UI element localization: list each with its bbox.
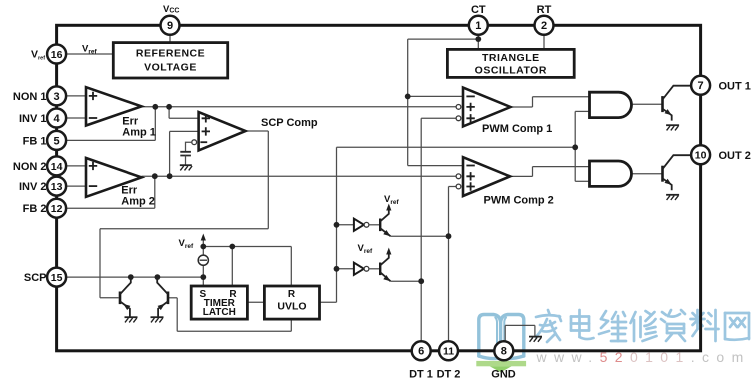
svg-text:REFERENCE: REFERENCE (136, 48, 205, 60)
svg-text:PWM Comp 2: PWM Comp 2 (484, 194, 554, 206)
svg-text:FB 2: FB 2 (23, 203, 47, 215)
svg-text:SCP: SCP (24, 272, 47, 284)
svg-text:12: 12 (51, 203, 63, 215)
svg-text:14: 14 (51, 161, 63, 173)
svg-text:Amp 1: Amp 1 (122, 127, 156, 139)
svg-text:5: 5 (54, 135, 60, 147)
svg-text:2: 2 (541, 20, 547, 32)
svg-text:INV 1: INV 1 (19, 113, 47, 125)
svg-text:Err: Err (121, 184, 138, 196)
svg-text:OUT 2: OUT 2 (719, 150, 751, 162)
svg-text:8: 8 (501, 346, 507, 358)
svg-text:OUT 1: OUT 1 (719, 80, 751, 92)
svg-text:LATCH: LATCH (203, 307, 236, 318)
svg-text:Amp 2: Amp 2 (121, 196, 155, 208)
svg-text:3: 3 (54, 91, 60, 103)
svg-text:VOLTAGE: VOLTAGE (144, 62, 197, 74)
svg-text:9: 9 (167, 20, 173, 32)
svg-text:13: 13 (51, 181, 63, 193)
svg-text:15: 15 (51, 272, 63, 284)
svg-text:DT 1: DT 1 (409, 369, 433, 381)
svg-text:RT: RT (537, 4, 552, 16)
svg-text:11: 11 (443, 346, 454, 358)
svg-text:SCP Comp: SCP Comp (261, 117, 318, 129)
svg-text:INV 2: INV 2 (19, 181, 47, 193)
svg-text:7: 7 (698, 80, 704, 92)
svg-text:DT 2: DT 2 (437, 369, 461, 381)
svg-text:NON 1: NON 1 (13, 91, 47, 103)
svg-text:TRIANGLE: TRIANGLE (482, 52, 540, 64)
svg-text:NON 2: NON 2 (13, 161, 47, 173)
svg-text:16: 16 (51, 49, 63, 61)
svg-text:10: 10 (695, 150, 707, 162)
svg-text:1: 1 (475, 20, 481, 32)
svg-text:CT: CT (471, 4, 486, 16)
svg-text:6: 6 (418, 346, 424, 358)
svg-text:OSCILLATOR: OSCILLATOR (475, 64, 547, 76)
svg-text:4: 4 (54, 113, 61, 125)
svg-text:FB 1: FB 1 (23, 135, 47, 147)
svg-text:GND: GND (491, 369, 516, 381)
svg-text:UVLO: UVLO (277, 301, 306, 313)
svg-text:R: R (288, 289, 296, 300)
svg-text:PWM Comp 1: PWM Comp 1 (482, 123, 552, 135)
